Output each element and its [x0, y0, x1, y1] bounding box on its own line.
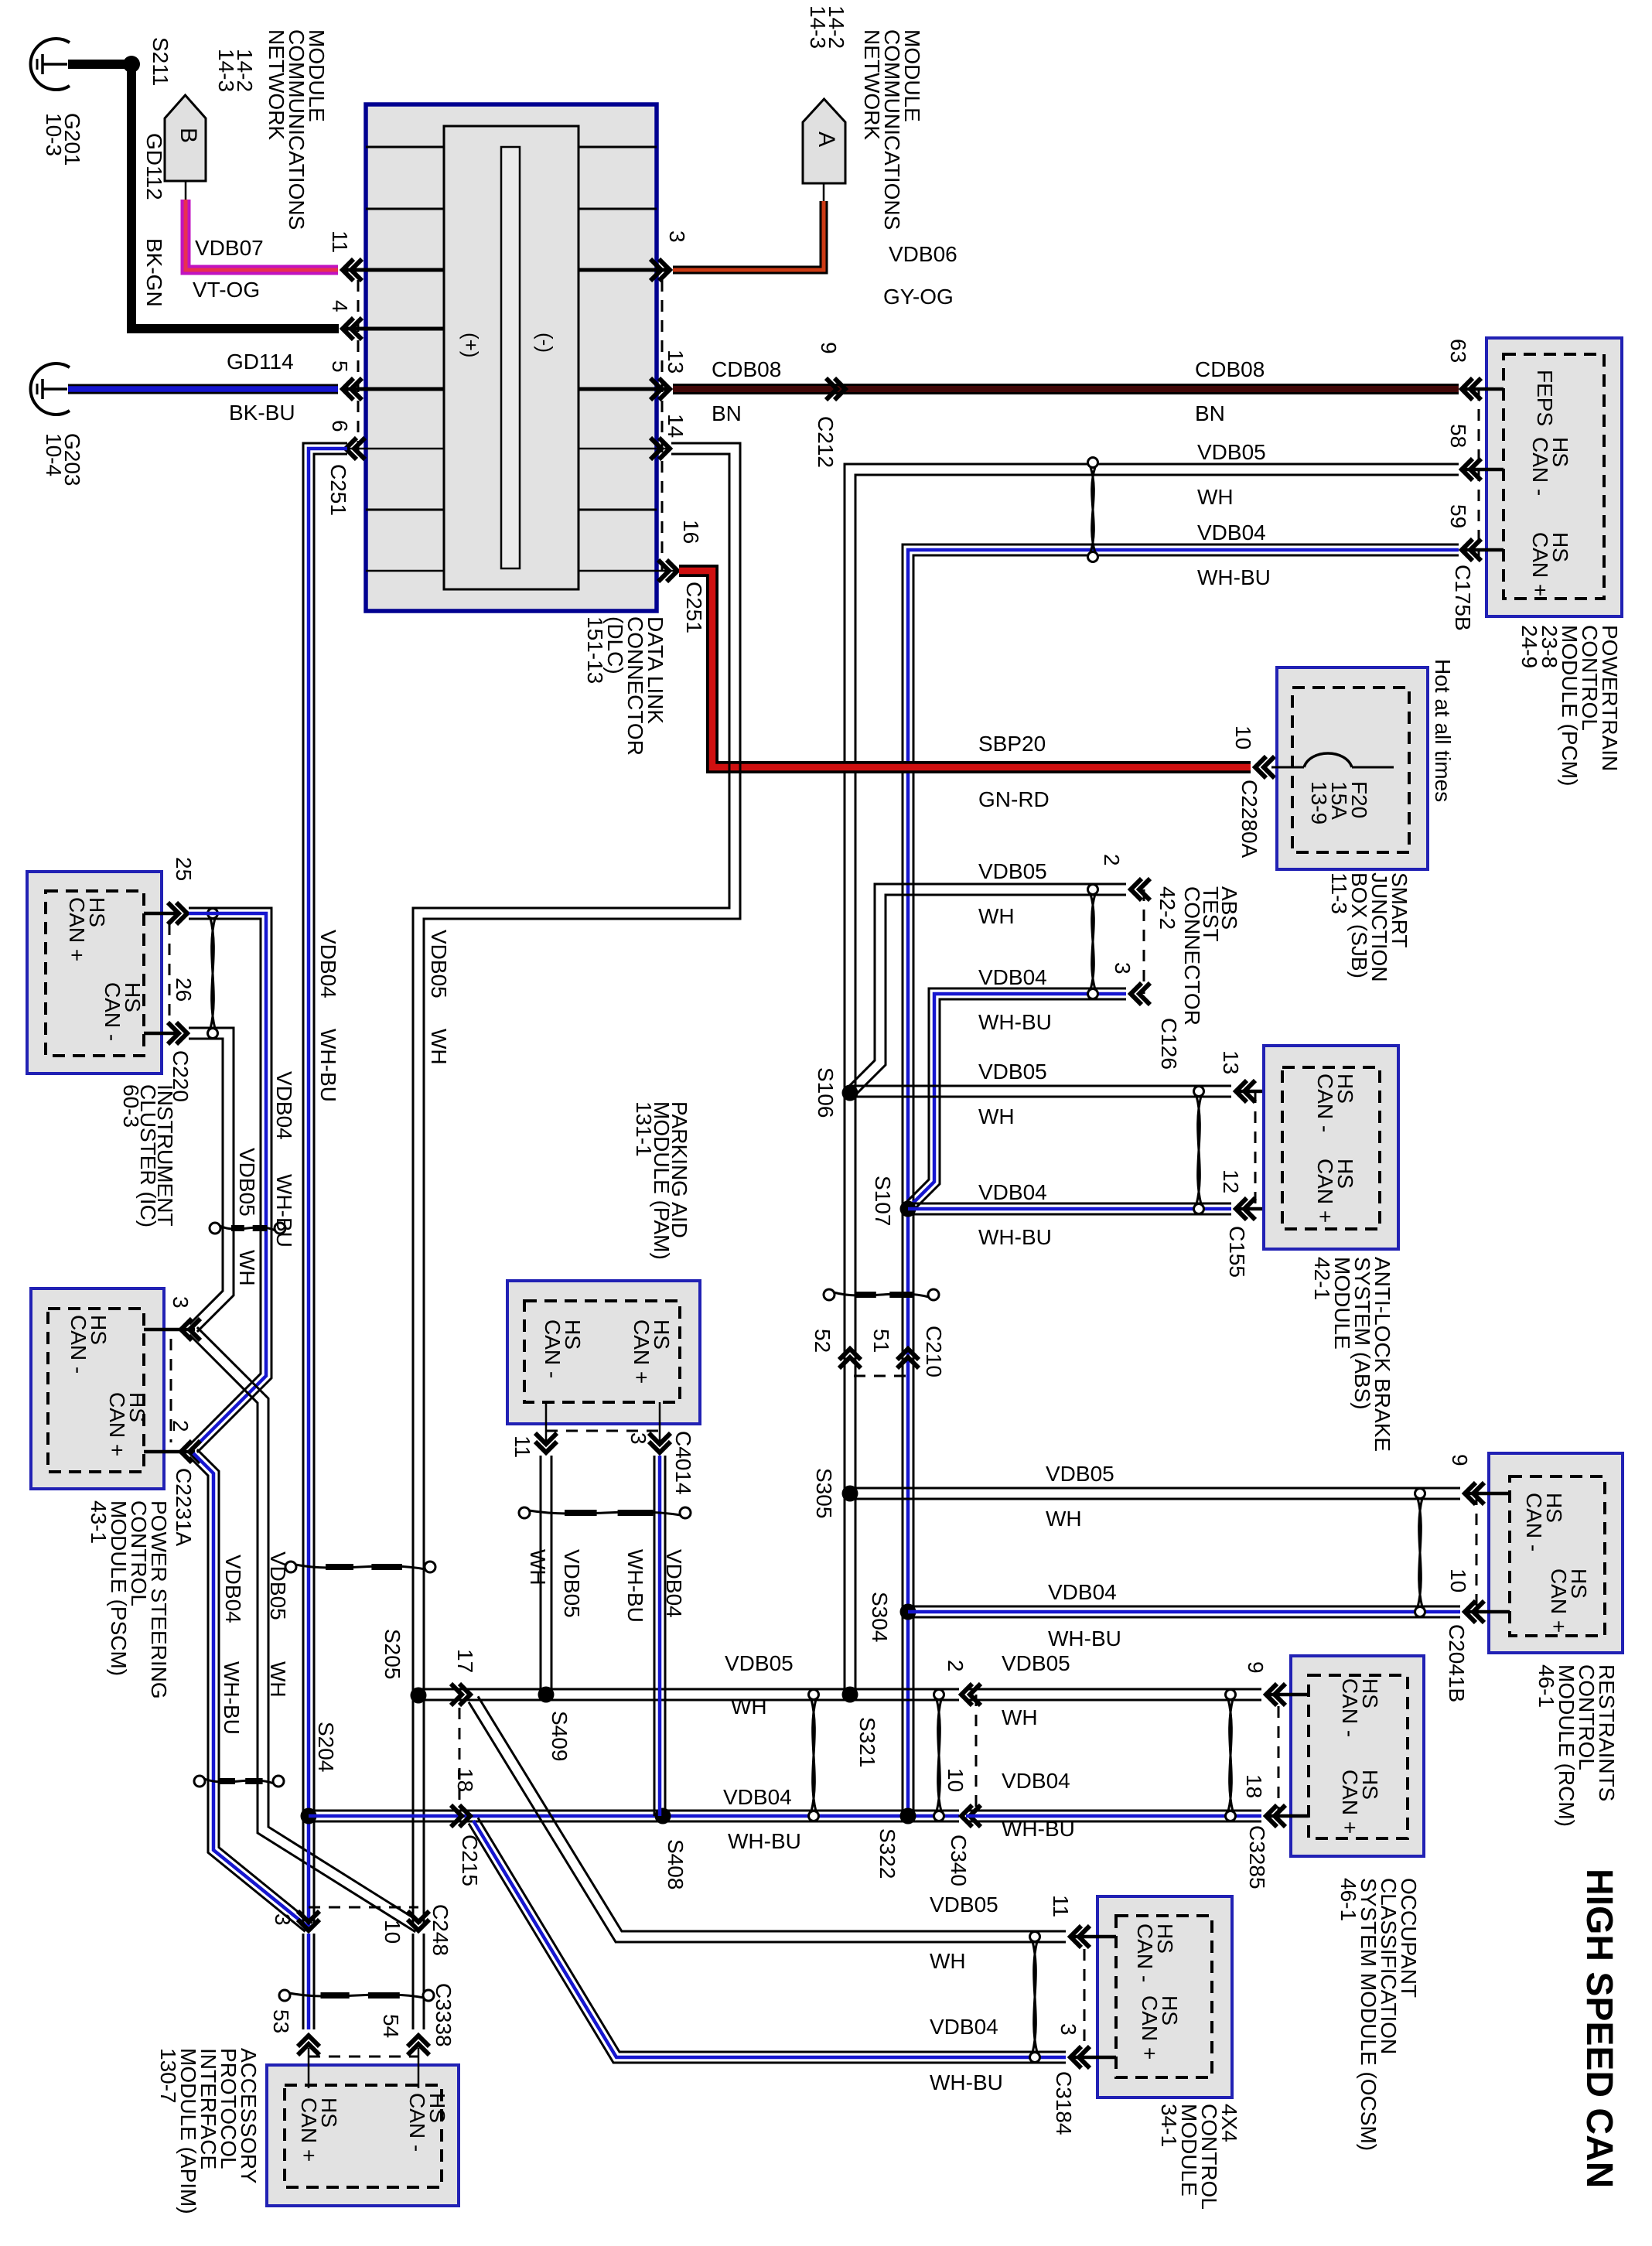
- svg-text:13: 13: [1219, 1050, 1243, 1074]
- svg-text:VDB05: VDB05: [1002, 1651, 1070, 1675]
- DLC pin 5 stub: [343, 387, 444, 391]
- svg-text:WH: WH: [978, 1104, 1015, 1128]
- svg-text:S408: S408: [664, 1839, 688, 1889]
- PSCM pin 2 stub: [144, 1450, 195, 1454]
- svg-text:C251: C251: [326, 464, 350, 516]
- wire VDB05 WH to ABS pin 13: [850, 1085, 1231, 1087]
- twisted pair bar above S204: [285, 1562, 296, 1572]
- IC pin 25 stub: [144, 912, 178, 916]
- wire VDB05 WH C215 to 4X4 pin 11: [478, 1696, 1066, 1931]
- wire VDB05 WH C340 to OCSM pin 9: [966, 1688, 1261, 1691]
- svg-text:WH: WH: [731, 1695, 767, 1719]
- DLC pin 3 stub: [579, 268, 670, 272]
- svg-text:S204: S204: [314, 1722, 338, 1772]
- svg-text:3: 3: [169, 1296, 193, 1309]
- 4X4 pin 11 arrow: [1070, 1926, 1081, 1947]
- DLC pin 13 stub: [579, 387, 670, 391]
- DLC pin 14 stub: [579, 448, 670, 450]
- svg-text:WH-BU: WH-BU: [930, 2070, 1003, 2094]
- fuse F20 wire: [1271, 766, 1304, 769]
- twisted pair C2041B: [1415, 1489, 1425, 1499]
- power steering control module PSCM box: [31, 1289, 164, 1489]
- twisted pair near PCM: [1088, 458, 1098, 468]
- svg-text:17: 17: [453, 1649, 477, 1673]
- svg-text:18: 18: [453, 1768, 477, 1792]
- PSCM dashed box: [48, 1309, 144, 1472]
- svg-text:WH-BU: WH-BU: [978, 1225, 1052, 1249]
- svg-text:12: 12: [1219, 1169, 1243, 1193]
- wire VDB05 WH DLC pin14 trunk: [424, 443, 740, 1926]
- svg-text:WH: WH: [1046, 1507, 1082, 1531]
- svg-text:CDB08: CDB08: [712, 357, 781, 381]
- svg-text:VDB04: VDB04: [1048, 1580, 1117, 1604]
- DLC center slot: [501, 147, 520, 568]
- svg-text:53: 53: [269, 2009, 293, 2033]
- connector C2231A dashed: [170, 1339, 172, 1442]
- PAM pin 11 stub: [545, 1402, 548, 1443]
- svg-text:54: 54: [379, 2014, 403, 2038]
- APIM dashed box: [285, 2085, 442, 2187]
- twisted pair bar PAM: [519, 1507, 530, 1518]
- svg-text:C155: C155: [1225, 1226, 1249, 1278]
- svg-text:S305: S305: [812, 1468, 836, 1518]
- svg-text:S211: S211: [148, 37, 172, 86]
- connector B: [165, 95, 206, 181]
- svg-text:S409: S409: [548, 1711, 572, 1761]
- C248 pin 10 arrow: [408, 1920, 429, 1930]
- wire VDB04 WH-BU row S204 east: [309, 1810, 959, 1812]
- twisted pair C126: [1088, 885, 1098, 895]
- svg-text:42-2: 42-2: [1155, 886, 1179, 930]
- svg-text:CDB08: CDB08: [1195, 357, 1265, 381]
- wire SBP20 GN-RD: [679, 571, 1251, 767]
- svg-text:11: 11: [328, 230, 352, 253]
- svg-text:VDB05: VDB05: [930, 1893, 998, 1917]
- svg-text:B: B: [176, 128, 201, 143]
- splice S205: [411, 1688, 427, 1704]
- wire VDB07 VT-OG: [186, 200, 338, 270]
- svg-text:VDB05: VDB05: [427, 930, 451, 998]
- twisted pair C155: [1194, 1087, 1204, 1097]
- svg-text:BN: BN: [712, 401, 742, 425]
- svg-text:C210: C210: [922, 1326, 946, 1377]
- connector C251 left dashed: [357, 280, 360, 458]
- svg-text:C215: C215: [458, 1835, 482, 1886]
- parking aid module PAM box: [507, 1281, 700, 1424]
- svg-text:14-3: 14-3: [806, 5, 830, 49]
- svg-text:(-): (-): [534, 333, 557, 353]
- svg-text:C175B: C175B: [1451, 565, 1475, 631]
- OCSM pin 18 arrow: [1266, 1805, 1277, 1827]
- svg-text:WH: WH: [930, 1949, 966, 1973]
- svg-text:VDB04: VDB04: [930, 2015, 998, 2039]
- inline connector C212 arrow 9: [835, 378, 845, 400]
- svg-text:VDB05: VDB05: [235, 1148, 259, 1217]
- wire G201 to S211: [68, 60, 125, 69]
- svg-text:S304: S304: [868, 1592, 892, 1642]
- svg-text:S322: S322: [875, 1828, 899, 1879]
- splice S204: [301, 1808, 317, 1824]
- SJB dashed box: [1292, 688, 1409, 852]
- svg-text:16: 16: [679, 520, 703, 544]
- wire VDB04 WH-BU C248 to C3338 53: [313, 1934, 316, 2029]
- svg-text:WH: WH: [526, 1549, 550, 1586]
- splice S304: [900, 1604, 916, 1620]
- svg-text:3: 3: [1056, 2023, 1080, 2036]
- svg-text:18: 18: [1242, 1774, 1266, 1798]
- twisted pair C340: [934, 1690, 944, 1700]
- RCM pin 9 arrow: [1465, 1483, 1476, 1504]
- connector C4014 dashed: [546, 1430, 660, 1432]
- connector C248 dashed: [309, 1906, 418, 1909]
- svg-text:2: 2: [1100, 854, 1124, 866]
- splice S322: [900, 1808, 916, 1824]
- svg-text:WH-BU: WH-BU: [220, 1661, 244, 1735]
- accessory protocol interface module APIM box: [267, 2065, 459, 2206]
- svg-text:VDB04: VDB04: [978, 965, 1047, 989]
- wire VDB05 WH trunk: [855, 475, 1459, 1695]
- svg-text:VDB04: VDB04: [1002, 1769, 1070, 1793]
- C3338 pin 53 arrow: [298, 2036, 319, 2046]
- svg-text:A: A: [814, 131, 839, 147]
- twisted pair bar IC-PSCM: [210, 1223, 220, 1234]
- 4X4 control module box: [1097, 1896, 1232, 2098]
- svg-text:63: 63: [1446, 339, 1470, 363]
- svg-text:C3338: C3338: [432, 1983, 456, 2047]
- svg-text:FEPS: FEPS: [1533, 370, 1557, 426]
- ground G203: [31, 364, 70, 415]
- svg-text:Hot at all times: Hot at all times: [1431, 659, 1455, 802]
- svg-text:VDB04: VDB04: [662, 1549, 686, 1618]
- svg-text:10: 10: [1446, 1568, 1470, 1592]
- instrument cluster IC box: [27, 872, 162, 1074]
- svg-text:3: 3: [1111, 962, 1135, 975]
- wire VDB04 WH-BU to ABS pin 12: [908, 1203, 1231, 1205]
- svg-text:C3285: C3285: [1245, 1825, 1269, 1889]
- svg-text:WH-BU: WH-BU: [728, 1829, 801, 1853]
- RCM dashed box: [1510, 1476, 1605, 1636]
- connector C126 dashed: [1143, 889, 1145, 994]
- connector C251 right dashed: [661, 280, 664, 571]
- svg-text:10: 10: [381, 1920, 404, 1944]
- C215 pin 18 arrow: [459, 1805, 470, 1827]
- DLC row separator left y738: [366, 570, 444, 572]
- C3338 pin 54 arrow: [408, 2036, 429, 2046]
- OCSM dashed box: [1309, 1675, 1408, 1838]
- twisted pair left of S321: [809, 1690, 819, 1700]
- svg-text:WH-BU: WH-BU: [623, 1549, 647, 1623]
- svg-text:C2231A: C2231A: [172, 1468, 196, 1547]
- twisted pair bar above C210: [824, 1289, 835, 1300]
- svg-text:C248: C248: [428, 1904, 452, 1956]
- svg-text:5: 5: [328, 360, 352, 373]
- svg-text:(+): (+): [459, 333, 483, 358]
- 4X4 dashed box: [1116, 1916, 1212, 2077]
- PSCM pin 3 stub: [144, 1328, 195, 1332]
- C126 pin 3 arrow: [1131, 983, 1142, 1005]
- wire VDB04 WH-BU DLC pin6 trunk: [314, 454, 347, 1926]
- connector C3338 dashed: [309, 2056, 418, 2058]
- svg-text:WH-BU: WH-BU: [272, 1174, 296, 1248]
- wire VDB04 WH-BU C215 to 4X4 pin 3: [478, 1818, 1066, 2052]
- DLC pin 4 stub: [343, 327, 444, 331]
- RCM pin 10 arrow: [1465, 1601, 1476, 1623]
- wire GD114 BK-BU: [68, 384, 338, 394]
- svg-text:BK-GN: BK-GN: [142, 238, 166, 307]
- svg-text:C251: C251: [682, 582, 706, 633]
- svg-text:VDB04: VDB04: [1197, 521, 1266, 544]
- svg-text:11: 11: [510, 1435, 534, 1458]
- svg-text:BK-BU: BK-BU: [229, 401, 295, 425]
- PCM pin 63 stub: [1462, 387, 1504, 391]
- svg-text:C2280A: C2280A: [1237, 780, 1261, 858]
- twisted pair C3184: [1030, 1932, 1040, 1942]
- svg-text:WH: WH: [266, 1661, 290, 1698]
- svg-text:3: 3: [271, 1913, 295, 1926]
- ground G201: [31, 39, 70, 90]
- DLC pin 6 stub: [346, 448, 444, 450]
- DLC row separator: [366, 208, 444, 210]
- svg-text:6: 6: [328, 420, 352, 432]
- svg-text:VDB06: VDB06: [889, 242, 957, 266]
- wire VDB04 WH-BU trunk: [913, 555, 1459, 1816]
- 4X4 pin 3 arrow: [1070, 2046, 1081, 2068]
- wire VDB04 WH-BU PAM pin 3 to S408: [664, 1456, 667, 1816]
- connector C215 dashed: [459, 1708, 461, 1802]
- svg-text:10-4: 10-4: [42, 433, 66, 476]
- wire VDB05 WH PAM pin 11 to S409: [551, 1456, 553, 1695]
- wire VDB06 GY-OG: [673, 201, 824, 270]
- ABS pin 13 arrow: [1236, 1080, 1247, 1102]
- svg-text:C2041B: C2041B: [1445, 1624, 1469, 1702]
- svg-text:HIGH SPEED CAN: HIGH SPEED CAN: [1579, 1869, 1620, 2188]
- svg-text:WH-BU: WH-BU: [316, 1029, 340, 1102]
- svg-text:51: 51: [869, 1329, 893, 1353]
- wire VDB04 WH-BU PSCM pin2 to C248 pin3: [197, 1449, 312, 1923]
- svg-text:11: 11: [1049, 1895, 1073, 1917]
- DLC row separator: [366, 146, 444, 148]
- splice S408: [655, 1808, 671, 1824]
- svg-text:VDB05: VDB05: [725, 1651, 794, 1675]
- svg-text:S107: S107: [871, 1176, 895, 1226]
- PCM pin 58 stub: [1462, 468, 1504, 472]
- svg-text:VDB05: VDB05: [1197, 440, 1266, 464]
- wire VDB04 WH-BU to ABS test connector: [913, 999, 1126, 1210]
- svg-text:WH: WH: [978, 904, 1015, 928]
- wire VDB05 WH PSCM pin3 to C248 pin10: [197, 1327, 422, 1923]
- svg-text:VDB04: VDB04: [978, 1180, 1047, 1204]
- svg-text:VDB04: VDB04: [272, 1071, 296, 1140]
- connector A: [803, 99, 845, 183]
- svg-text:BN: BN: [1195, 401, 1225, 425]
- C215 pin 17 arrow: [459, 1684, 470, 1705]
- svg-text:10-3: 10-3: [42, 113, 66, 156]
- svg-text:VDB05: VDB05: [266, 1551, 290, 1620]
- wire VDB05 WH to RCM pin 9: [850, 1487, 1460, 1490]
- C248 pin 3 arrow: [298, 1920, 319, 1930]
- data link connector DLC box: [366, 104, 657, 611]
- svg-text:C126: C126: [1157, 1018, 1181, 1070]
- svg-text:WH: WH: [427, 1029, 451, 1065]
- svg-text:WH-BU: WH-BU: [1197, 565, 1271, 589]
- svg-text:2: 2: [169, 1420, 193, 1432]
- DLC row separator: [366, 509, 444, 511]
- wire VDB04 WH-BU to RCM pin 10: [908, 1606, 1460, 1608]
- svg-text:GD114: GD114: [227, 350, 294, 374]
- svg-text:10: 10: [1231, 725, 1255, 749]
- svg-text:WH: WH: [1002, 1705, 1038, 1729]
- ABS pin 12 arrow: [1236, 1198, 1247, 1220]
- svg-text:VDB05: VDB05: [1046, 1462, 1114, 1486]
- wire VDB04 WH-BU IC pin25 to PSCM pin2: [189, 908, 271, 1452]
- anti-lock brake system ABS module box: [1264, 1046, 1398, 1249]
- svg-text:58: 58: [1446, 424, 1470, 448]
- svg-text:F2015A13-9: F2015A13-9: [1307, 781, 1371, 824]
- smart junction box SJB: [1277, 667, 1428, 869]
- twisted pair bar C3338: [279, 1990, 290, 2001]
- svg-text:SBP20: SBP20: [978, 732, 1046, 756]
- svg-text:S205: S205: [381, 1629, 404, 1679]
- occupant classification system module OCSM box: [1291, 1656, 1424, 1856]
- svg-text:WH-BU: WH-BU: [978, 1010, 1052, 1034]
- powertrain control module PCM box: [1486, 338, 1622, 616]
- connector C340 dashed: [975, 1695, 978, 1816]
- DLC pin 16 stub: [579, 570, 678, 572]
- twisted pair bar below PSCM: [194, 1776, 205, 1787]
- splice S106: [842, 1085, 858, 1101]
- C210 pin 52 arrow: [839, 1349, 861, 1360]
- svg-text:9: 9: [1448, 1454, 1472, 1466]
- svg-text:14: 14: [664, 414, 688, 438]
- svg-text:13: 13: [664, 350, 688, 374]
- svg-text:C3184: C3184: [1052, 2071, 1076, 2135]
- APIM pin 54 wire: [418, 2048, 420, 2088]
- splice S305: [842, 1486, 858, 1502]
- IC dashed box: [46, 891, 144, 1056]
- svg-text:3: 3: [665, 230, 689, 243]
- splice S409: [538, 1687, 555, 1703]
- svg-text:GN-RD: GN-RD: [978, 787, 1050, 811]
- wire VDB05 WH C248 to C3338 54: [423, 1934, 425, 2029]
- svg-text:4: 4: [328, 300, 352, 312]
- PCM pin 59 stub: [1462, 548, 1504, 552]
- connector C2280A arrow 10: [1255, 756, 1266, 778]
- wire stub A: [823, 183, 825, 203]
- svg-text:C340: C340: [947, 1835, 971, 1886]
- connector C220 dashed: [169, 923, 171, 1022]
- svg-text:59: 59: [1446, 504, 1470, 528]
- connector C175B dashed: [1478, 389, 1480, 561]
- APIM pin 53 wire: [308, 2048, 310, 2088]
- PAM dashed box: [524, 1301, 680, 1402]
- twisted pair C220: [208, 909, 218, 919]
- wire VDB05 WH IC pin26 to PSCM pin3: [189, 1028, 234, 1332]
- connector C2041B dashed: [1476, 1493, 1478, 1612]
- svg-text:3: 3: [626, 1432, 650, 1445]
- svg-text:VDB04: VDB04: [723, 1785, 792, 1809]
- splice S321: [842, 1687, 858, 1703]
- svg-text:C212: C212: [814, 416, 838, 468]
- splice S107: [900, 1201, 916, 1217]
- svg-text:S321: S321: [855, 1717, 879, 1767]
- IC pin 26 stub: [144, 1032, 178, 1036]
- svg-text:C4014: C4014: [671, 1431, 695, 1495]
- ABS dashed box: [1282, 1067, 1380, 1229]
- connector C155 dashed: [1254, 1091, 1257, 1209]
- C126 pin 2 arrow: [1131, 879, 1142, 900]
- svg-text:VDB05: VDB05: [978, 1060, 1047, 1084]
- C340 pin 10 arrow: [961, 1805, 972, 1827]
- svg-text:VDB05: VDB05: [978, 859, 1047, 883]
- wire stub B: [185, 181, 187, 201]
- svg-text:VDB05: VDB05: [560, 1549, 584, 1618]
- svg-text:WH: WH: [235, 1250, 259, 1286]
- wire VDB05 WH to ABS test connector: [855, 895, 1126, 1095]
- wire VDB04 WH-BU C340 to OCSM pin 18: [966, 1810, 1261, 1812]
- svg-text:VDB04: VDB04: [221, 1555, 245, 1623]
- svg-text:9: 9: [817, 342, 841, 354]
- svg-text:GD112: GD112: [142, 133, 166, 200]
- svg-text:2: 2: [944, 1660, 968, 1672]
- wire GD112 BK-GN S211 to DLC pin 4: [131, 60, 339, 329]
- DLC inner body: [444, 126, 579, 589]
- connector C210 dashed: [854, 1375, 914, 1377]
- svg-text:WH-BU: WH-BU: [1048, 1626, 1121, 1650]
- svg-text:WH-BU: WH-BU: [1002, 1817, 1075, 1841]
- svg-text:VT-OG: VT-OG: [193, 278, 260, 302]
- wire VDB05 WH row S205 east: [418, 1688, 959, 1691]
- OCSM pin 9 arrow: [1266, 1684, 1277, 1705]
- svg-text:9: 9: [1244, 1661, 1268, 1674]
- PAM pin 3 stub: [659, 1402, 661, 1443]
- splice S211: [123, 56, 140, 73]
- C210 pin 51 arrow: [897, 1349, 919, 1360]
- wire CDB08 BN: [673, 384, 1459, 394]
- svg-text:14-3: 14-3: [214, 49, 238, 92]
- C340 pin 2 arrow: [961, 1684, 972, 1705]
- DLC pin 11 stub: [343, 268, 444, 272]
- svg-text:GY-OG: GY-OG: [883, 285, 954, 309]
- svg-text:26: 26: [172, 978, 196, 1002]
- connector C3184 dashed: [1084, 1949, 1086, 2048]
- twisted pair C3285: [1226, 1690, 1236, 1700]
- svg-text:WH: WH: [1197, 485, 1234, 509]
- PCM dashed connector box: [1504, 354, 1604, 599]
- svg-text:25: 25: [172, 857, 196, 881]
- svg-text:S106: S106: [814, 1067, 838, 1118]
- restraints control module RCM box: [1489, 1453, 1623, 1653]
- connector C3285 dashed: [1278, 1706, 1280, 1814]
- svg-text:VDB04: VDB04: [316, 930, 340, 998]
- svg-text:VDB07: VDB07: [195, 236, 264, 260]
- svg-text:52: 52: [811, 1329, 835, 1353]
- svg-text:10: 10: [944, 1768, 968, 1792]
